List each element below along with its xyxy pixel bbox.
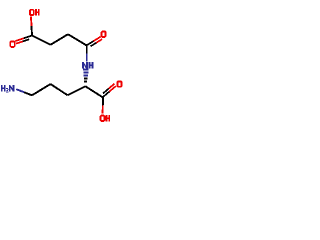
- wire O-C1 (HO to carboxyl C): [30, 16, 33, 26]
- wire C1-C2: [32, 36, 51, 45]
- label OH top carboxyl: [29, 9, 35, 16]
- label H2N amine: [1, 85, 3, 91]
- label NH amide: [82, 62, 84, 68]
- wire C2-C3: [51, 34, 69, 45]
- wire C6=O inner line: [103, 89, 109, 94]
- wire C1=O main line: [24, 36, 32, 39]
- wire C8-C9: [32, 84, 51, 95]
- label OH bottom acid: [100, 115, 106, 122]
- wire C4-N amide: [86, 45, 88, 53]
- wire C7-C8: [51, 84, 68, 95]
- hashed wedge N-C5: [83, 69, 89, 71]
- chemical structure: N2-succinyl-ornithine skeletal formula: [0, 0, 130, 130]
- wire C5-C6: [85, 86, 103, 97]
- label O acid carbonyl: [116, 80, 122, 87]
- wire C6=O main line: [103, 92, 110, 98]
- wire C3-C4: [68, 34, 87, 45]
- wire C6-OH: [102, 98, 104, 106]
- wire C9-N (to H2N): [24, 92, 32, 95]
- label O amide carbonyl: [101, 30, 107, 38]
- wire C4=O main line: [87, 41, 94, 45]
- wire C1=O inner line: [23, 39, 30, 41]
- wire C4=O inner line: [91, 43, 97, 47]
- label O left carbonyl: [9, 41, 15, 48]
- wire C5-C7: [68, 86, 86, 95]
